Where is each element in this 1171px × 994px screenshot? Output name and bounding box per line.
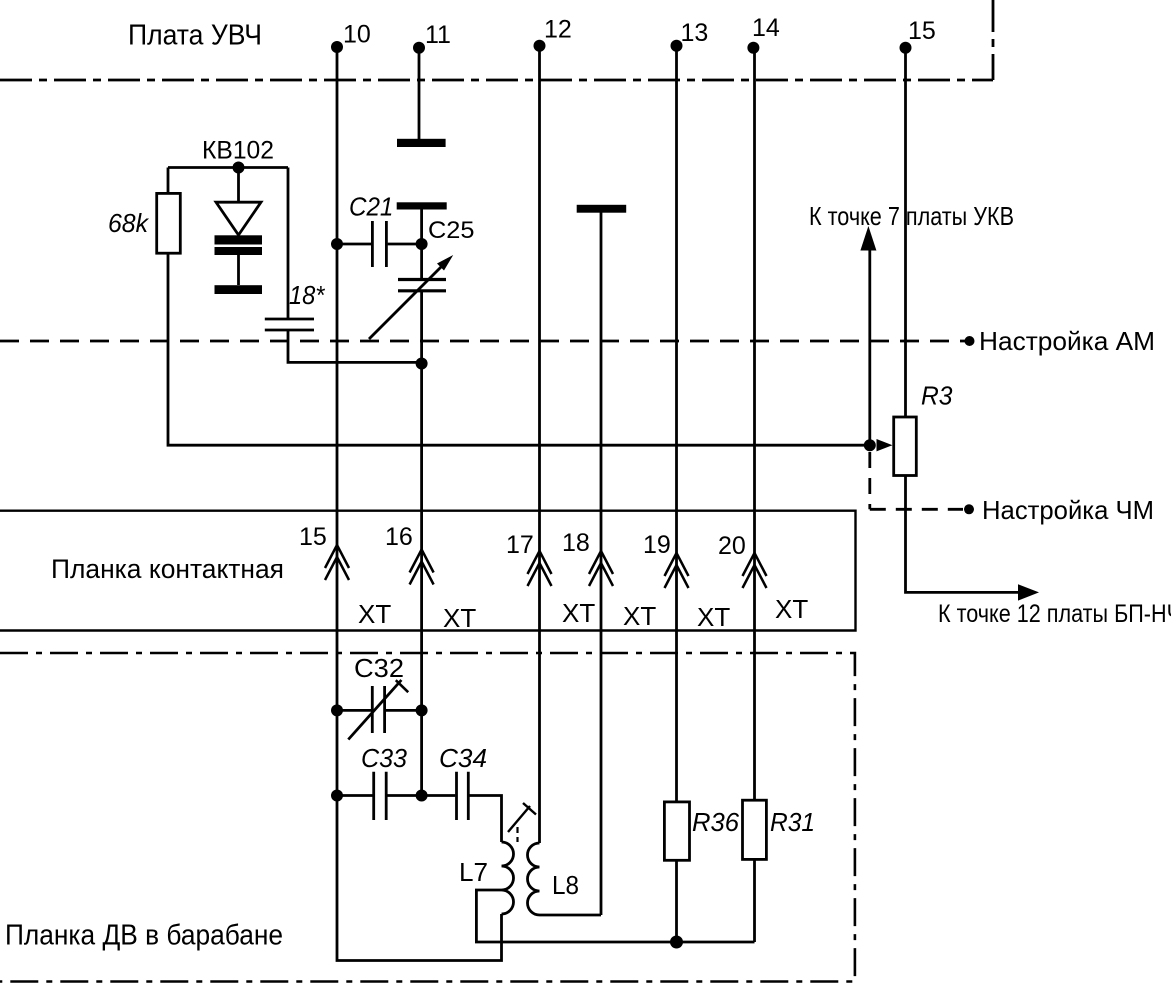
svg-text:18: 18 xyxy=(562,529,590,557)
junction node R3 wiper xyxy=(864,439,876,451)
contact 15 chevrons xyxy=(325,545,349,580)
trimmer capacitor C32 adjust stroke xyxy=(348,680,401,740)
svg-text:19: 19 xyxy=(643,531,671,559)
svg-text:L8: L8 xyxy=(552,870,579,900)
wire C34 left xyxy=(422,794,456,797)
inductor L7 coil xyxy=(502,842,514,914)
svg-text:ХТ: ХТ xyxy=(443,603,476,633)
contact 17 chevrons xyxy=(528,551,552,586)
potentiometer R3 xyxy=(894,417,917,476)
svg-text:С32: С32 xyxy=(354,653,404,683)
box Планка ДВ в барабане (dash-dot) xyxy=(0,653,855,982)
wire 68k top link xyxy=(168,166,288,169)
svg-text:Планка ДВ в барабане: Планка ДВ в барабане xyxy=(5,920,283,952)
junction node C33 left xyxy=(331,790,343,802)
resistor R36 xyxy=(664,802,689,860)
svg-text:C25: C25 xyxy=(428,217,475,244)
node Настройка ЧМ bullet xyxy=(964,504,974,514)
contact plate of node 18 xyxy=(577,205,627,213)
junction node wire10/C21 xyxy=(331,238,343,250)
capacitor C25 plates xyxy=(398,280,446,291)
svg-text:С34: С34 xyxy=(439,743,487,773)
L7 core trimmer dashed tail xyxy=(516,827,518,842)
wire КВ102 cathode link xyxy=(237,255,240,285)
varicap КВ102 cathode bar 2 xyxy=(215,247,263,255)
wire К точке 7 vertical xyxy=(868,250,871,445)
trimmer capacitor C32 tick xyxy=(396,680,408,692)
contact 16 chevrons xyxy=(410,550,434,585)
svg-text:Планка контактная: Планка контактная xyxy=(51,554,284,584)
pin 15 xyxy=(900,42,912,54)
resistor R31 xyxy=(743,800,767,859)
svg-text:11: 11 xyxy=(425,21,451,49)
wire 68k bottom long run to R3 wiper xyxy=(168,253,870,445)
svg-text:R36: R36 xyxy=(692,807,740,837)
varicap diode КВ102 triangle xyxy=(216,202,261,235)
inductor L8 coil xyxy=(528,843,540,915)
contact plate below КВ102 xyxy=(215,285,263,294)
svg-text:ХТ: ХТ xyxy=(623,601,656,631)
wire КВ102 anode stub xyxy=(237,168,240,203)
svg-text:68k: 68k xyxy=(108,208,150,238)
pin 10 xyxy=(331,41,343,53)
junction node C21/C25 xyxy=(416,238,428,250)
svg-text:12: 12 xyxy=(544,16,572,44)
wire pin10 / contact 15 vertical, bottom run to L7 xyxy=(337,47,502,961)
svg-text:17: 17 xyxy=(506,531,534,559)
L7 core trimmer stroke xyxy=(508,806,530,832)
wire R31 bottom leg xyxy=(753,859,756,942)
varicap КВ102 cathode bar 1 xyxy=(215,235,263,244)
wire contact 18 vertical from plate to L8 bottom xyxy=(600,213,603,916)
svg-text:ХТ: ХТ xyxy=(697,602,730,632)
svg-text:16: 16 xyxy=(385,523,413,551)
wire L8 bottom rail xyxy=(540,914,602,917)
svg-text:13: 13 xyxy=(681,19,709,47)
trimmer capacitor C32 plates xyxy=(372,686,384,733)
contact 18 chevrons xyxy=(589,551,613,586)
wire pin13 / contact 19 vertical to R36 xyxy=(675,46,678,802)
svg-text:КВ102: КВ102 xyxy=(202,137,274,165)
wire C21 right xyxy=(388,243,422,246)
node Настройка АМ bullet xyxy=(965,336,975,346)
junction node КВ102 top xyxy=(233,162,245,174)
wire C21 left xyxy=(337,243,371,246)
wire C33 right xyxy=(387,794,421,797)
wire pin15 vertical to R3 xyxy=(904,48,907,417)
wire C34 right to L7 top xyxy=(470,796,502,843)
svg-text:ХТ: ХТ xyxy=(562,598,595,628)
pin 14 xyxy=(747,42,759,54)
capacitor 18* plates xyxy=(265,319,314,330)
capacitor C34 plates xyxy=(457,772,469,820)
svg-text:L7: L7 xyxy=(459,857,488,887)
wire pin11 stub xyxy=(418,48,421,139)
junction node C32 right xyxy=(416,704,428,716)
junction node C33 right xyxy=(416,790,428,802)
svg-text:R3: R3 xyxy=(921,381,953,411)
resistor 68k xyxy=(157,193,181,253)
svg-text:15: 15 xyxy=(908,17,936,45)
capacitor C33 plates xyxy=(374,772,387,820)
svg-text:К точке 7 платы УКВ: К точке 7 платы УКВ xyxy=(809,201,1014,231)
contact 19 chevrons xyxy=(665,553,689,588)
pin 12 xyxy=(534,40,546,52)
svg-text:С33: С33 xyxy=(361,743,408,773)
svg-text:Плата УВЧ: Плата УВЧ xyxy=(128,20,262,52)
pin 11 xyxy=(413,42,425,54)
svg-text:ХТ: ХТ xyxy=(775,594,808,624)
svg-text:14: 14 xyxy=(752,14,780,42)
wire pin12 / contact 17 vertical to L8 xyxy=(538,46,541,843)
capacitor C25 arrow xyxy=(369,263,446,340)
wire C33 left xyxy=(337,794,373,797)
arrow К точке 12 платы БП-НЧ xyxy=(1018,584,1039,600)
R3 wiper arrow xyxy=(877,439,893,451)
wire pin14 / contact 20 vertical to R31 xyxy=(753,48,756,800)
wire C32 left xyxy=(337,709,371,712)
svg-text:К точке 12 платы БП-НЧ: К точке 12 платы БП-НЧ xyxy=(938,600,1171,628)
svg-text:Настройка ЧМ: Настройка ЧМ xyxy=(982,495,1154,525)
net Настройка ЧМ dashed link xyxy=(870,452,963,509)
wire C25 / contact 16 vertical xyxy=(420,209,423,278)
svg-text:Настройка АМ: Настройка АМ xyxy=(979,326,1155,356)
wire L7 tap and bottom rail to R36/R31 xyxy=(476,890,754,942)
wire R3 bottom to output arrow xyxy=(906,476,1021,593)
junction node 18*/C25 xyxy=(416,358,428,370)
svg-text:ХТ: ХТ xyxy=(358,599,391,629)
svg-text:18*: 18* xyxy=(289,280,325,310)
pin 13 xyxy=(671,40,683,52)
svg-text:R31: R31 xyxy=(770,807,815,837)
box Планка контактная xyxy=(0,511,856,631)
wire 68k resistor top stub xyxy=(167,168,170,194)
board border Плата УВЧ (dash-dot) xyxy=(0,0,993,80)
junction node C32 left xyxy=(331,704,343,716)
svg-text:20: 20 xyxy=(718,532,746,560)
L7 core trimmer tick xyxy=(523,803,536,815)
contact plate under pin 11 xyxy=(397,139,446,147)
junction node R36/R31 bottom xyxy=(670,936,683,949)
arrow К точке 7 платы УКВ xyxy=(860,226,876,251)
wire 18* cap bottom lead to C25 node xyxy=(288,331,422,362)
net Настройка АМ dashed line xyxy=(0,340,965,343)
capacitor C21 plates xyxy=(372,221,386,267)
wire 18* cap top lead xyxy=(287,168,290,319)
wire R36 bottom to junction xyxy=(675,860,678,942)
svg-text:15: 15 xyxy=(299,523,327,551)
contact plate above C25 xyxy=(397,202,447,209)
contact 20 chevrons xyxy=(743,553,767,588)
svg-text:10: 10 xyxy=(343,21,371,49)
wire C32 right xyxy=(385,709,421,712)
svg-text:C21: C21 xyxy=(349,192,393,222)
